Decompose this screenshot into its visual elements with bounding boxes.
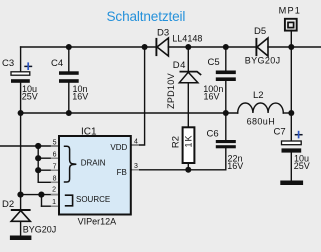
svg-text:680uH: 680uH: [247, 116, 276, 126]
svg-text:SOURCE: SOURCE: [76, 195, 110, 204]
svg-text:VIPer12A: VIPer12A: [78, 217, 117, 227]
svg-text:D2: D2: [2, 199, 14, 210]
svg-text:FB: FB: [117, 168, 127, 177]
svg-text:Schaltnetzteil: Schaltnetzteil: [107, 9, 186, 24]
svg-text:C4: C4: [51, 58, 63, 69]
svg-text:D3: D3: [157, 28, 169, 39]
svg-text:16V: 16V: [204, 92, 220, 102]
svg-text:ZPD10V: ZPD10V: [166, 73, 176, 109]
svg-text:6: 6: [53, 151, 57, 158]
svg-text:D5: D5: [254, 26, 266, 37]
svg-text:2: 2: [52, 186, 56, 193]
svg-text:3: 3: [134, 163, 138, 170]
svg-text:MP1: MP1: [279, 5, 302, 15]
svg-text:L2: L2: [253, 90, 264, 101]
svg-text:IC1: IC1: [81, 127, 97, 138]
svg-text:5: 5: [53, 139, 57, 146]
svg-text:1K: 1K: [183, 134, 193, 147]
svg-text:1: 1: [52, 199, 56, 206]
svg-text:25V: 25V: [294, 161, 310, 171]
svg-text:16V: 16V: [72, 92, 88, 102]
svg-text:8: 8: [53, 176, 57, 183]
svg-text:16V: 16V: [227, 161, 243, 171]
svg-text:7: 7: [53, 163, 57, 170]
svg-text:4: 4: [134, 139, 138, 146]
svg-text:C7: C7: [274, 127, 286, 138]
svg-text:VDD: VDD: [110, 143, 127, 152]
svg-text:LL4148: LL4148: [172, 34, 202, 44]
svg-text:R2: R2: [171, 136, 182, 148]
svg-text:C5: C5: [208, 57, 220, 68]
svg-text:BYG20J: BYG20J: [23, 224, 57, 234]
svg-text:DRAIN: DRAIN: [81, 158, 106, 167]
svg-text:C6: C6: [207, 129, 219, 140]
svg-text:C3: C3: [2, 58, 14, 69]
svg-text:D4: D4: [173, 60, 186, 71]
svg-text:BYG20J: BYG20J: [245, 56, 281, 66]
svg-text:25V: 25V: [22, 92, 38, 102]
